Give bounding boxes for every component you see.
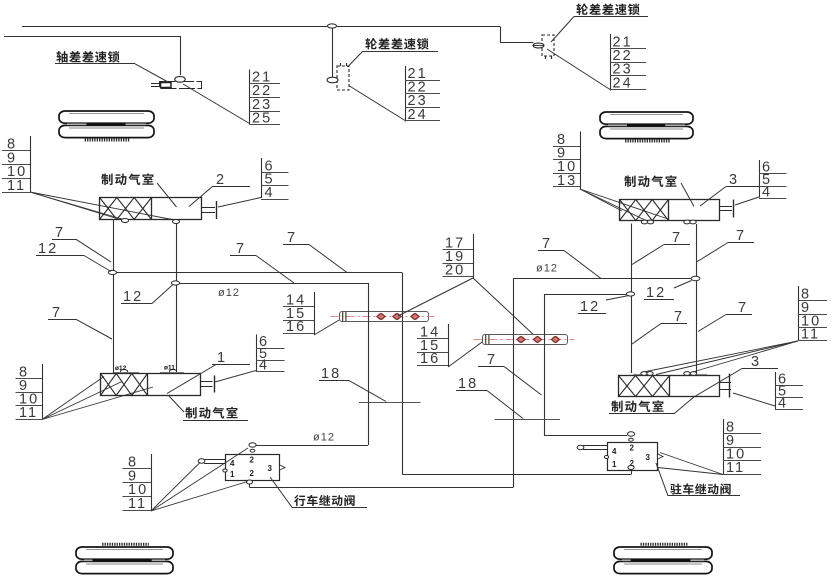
port flange stubs chamber 1: [114, 372, 139, 374]
svg-text:ø12: ø12: [536, 263, 558, 275]
tire bottom-right: [614, 544, 712, 573]
svg-text:2: 2: [250, 456, 255, 465]
callout stack 8/9/10/11 upper-left: [2, 136, 31, 194]
wire horizontal right to x513: [513, 278, 692, 280]
axle differential lock device: [151, 76, 202, 88]
callout stack 6/5/4 lower-right: [775, 372, 803, 412]
svg-text:ø11: ø11: [164, 365, 175, 372]
wire horizontal to center right: [113, 272, 402, 274]
callout stack 8/9/10/13 upper-right: [553, 132, 581, 190]
callout stack 21/22/23/24 mid: [405, 66, 440, 123]
svg-text:7: 7: [674, 309, 684, 325]
svg-text:ø12: ø12: [313, 432, 335, 444]
svg-text:16: 16: [286, 319, 306, 335]
callout stack 6/5/4 upper-left: [261, 158, 289, 201]
wire second line left: [4, 36, 180, 38]
brake chamber 3 upper: [620, 200, 720, 221]
label brake chamber text upper-right: [624, 175, 676, 187]
leader brake chamber label UR: [681, 183, 694, 207]
wire drop from node to wheel diff lock: [332, 28, 334, 78]
tire top-left: [59, 111, 154, 140]
parking valve breather: [577, 445, 609, 458]
svg-text:24: 24: [613, 75, 633, 91]
brake chamber 1: [101, 374, 201, 396]
fan leaders stack to chamber 1 spring: [42, 377, 104, 420]
leader wheel lock right to stack 21-24: [547, 49, 610, 90]
callout stack 8/9/10/11 lower-left: [16, 364, 43, 421]
wire valve top port line: [256, 445, 368, 447]
leader fitting to stack 6/5/4: [218, 198, 261, 208]
chamber 3 outlet fitting: [720, 200, 734, 218]
wire parking valve top line: [544, 435, 627, 437]
svg-text:12: 12: [38, 241, 58, 257]
node 12 right outer: [691, 276, 700, 280]
wheel differential lock device right: [533, 35, 554, 59]
svg-text:11: 11: [7, 178, 26, 194]
node junction on top line: [328, 24, 337, 28]
svg-text:18: 18: [321, 366, 341, 382]
svg-text:ø12: ø12: [218, 287, 240, 299]
valve bottom port: [246, 480, 252, 484]
fan leaders stack to chamber 2 spring: [30, 192, 115, 218]
label wheel diff lock right text: [576, 4, 639, 16]
tire top-right: [600, 112, 693, 141]
wire chamber3 right down: [696, 224, 698, 373]
fan leaders parking valve stack: [660, 453, 723, 475]
chamber 1 outlet fitting: [201, 376, 215, 393]
svg-text:7: 7: [738, 300, 748, 316]
label parking relay valve text: [670, 483, 730, 494]
leader axle lock to stack 21-25: [183, 84, 250, 124]
callout stack 8/9/10/11 right-edge: [798, 286, 827, 343]
svg-text:2: 2: [630, 444, 635, 453]
svg-text:11: 11: [726, 460, 745, 476]
underline and leader brake chamber LR: [609, 413, 674, 415]
node 12 right inner: [626, 292, 634, 296]
callout stack 6/5/4 upper-right: [759, 160, 787, 201]
wire service valve bottom to x513: [250, 487, 514, 489]
fan leaders right-edge stack to chamber 3L spring: [641, 341, 798, 373]
svg-text:ø12: ø12: [115, 365, 127, 372]
wire center vertical x368: [368, 283, 370, 445]
wire bottom long horizontal: [403, 474, 632, 476]
fan leaders stack to chamber 3 spring: [580, 189, 622, 211]
wire chamber3 left down: [631, 224, 633, 374]
callout stack 17/19/20: [443, 234, 474, 279]
svg-text:1: 1: [217, 350, 227, 366]
callout stack 8/9/10/11 valve-right: [723, 419, 761, 476]
brake chamber 2: [100, 198, 202, 220]
leader 14/15/16 right to pipe: [448, 341, 484, 367]
svg-text:7: 7: [287, 230, 297, 246]
pipe fitting 14-15-16 right: [474, 335, 575, 345]
mark hose 18 left tick: [359, 402, 421, 404]
svg-text:12: 12: [123, 289, 143, 305]
chamber 3L outlet fitting: [720, 374, 732, 398]
callout stack 21/22/23/24 right: [610, 34, 646, 91]
mark hose 18 right tick: [495, 419, 561, 421]
svg-text:7: 7: [52, 305, 62, 321]
chamber 1 top ports: [120, 370, 127, 374]
label axle diff lock text: [56, 51, 119, 63]
callout stack 6/5/4 lower-left: [256, 334, 285, 374]
leader wheel lock left to stack 21-24: [350, 86, 406, 121]
leader brake chamber label UL: [157, 183, 177, 207]
svg-text:4: 4: [265, 185, 275, 201]
wire vertical x513: [513, 279, 515, 488]
leader fitting1 to stack 6/5/4: [215, 371, 256, 383]
label service relay valve text: [294, 495, 354, 506]
wire parking valve bottom down: [631, 470, 633, 475]
svg-text:16: 16: [420, 351, 440, 367]
svg-text:7: 7: [542, 236, 552, 252]
label brake chamber text lower-right: [611, 400, 663, 412]
svg-text:2: 2: [250, 469, 255, 478]
valve breather left: [198, 459, 227, 472]
port stub lines: [633, 374, 641, 376]
chamber 3L top ports: [641, 372, 647, 376]
callout stack 14/15/16 left: [283, 292, 315, 335]
wheel differential lock device left: [327, 63, 349, 90]
label wheel diff lock right underline and leader: [574, 16, 648, 18]
svg-text:1: 1: [230, 470, 235, 479]
underline and leader parking relay valve: [668, 495, 740, 497]
leader fitting to stack 6/5/4 right: [735, 197, 759, 205]
svg-text:18: 18: [458, 376, 478, 392]
svg-text:4: 4: [230, 459, 235, 468]
valve top port ellipses: [249, 443, 256, 447]
svg-text:2: 2: [216, 172, 226, 188]
label wheel diff lock left text: [365, 38, 428, 50]
svg-text:3: 3: [751, 354, 761, 370]
svg-text:3: 3: [729, 172, 739, 188]
label wheel diff lock left underline and leader: [363, 51, 438, 53]
wire top main line: [22, 26, 500, 28]
fan leaders valve stack: [151, 463, 200, 512]
brake chamber 3 lower: [619, 376, 720, 397]
service relay valve: [226, 455, 286, 481]
label axle diff lock underline and leader: [55, 63, 135, 65]
svg-text:11: 11: [128, 496, 147, 512]
chamber 2 bottom ports: [121, 219, 128, 223]
parking valve top port ellipses: [627, 432, 634, 436]
wire vertical x544: [544, 294, 546, 435]
pipe fitting 14-15-16 left: [331, 312, 436, 322]
svg-text:3: 3: [646, 453, 651, 462]
leader 17/19/20 to left pipe: [398, 278, 473, 316]
chamber 2 outlet fitting: [202, 201, 217, 219]
wire segments crossing pipes: [368, 311, 370, 322]
parking valve bottom port: [628, 466, 634, 470]
svg-text:7: 7: [236, 241, 246, 257]
svg-text:7: 7: [487, 352, 497, 368]
leader 17/19/20 to right pipe: [473, 278, 536, 337]
callout stack 8/9/10/11 valve-left: [123, 454, 152, 512]
label brake chamber text upper-left: [101, 173, 153, 185]
underline and leader brake chamber LL: [183, 420, 248, 422]
wire drop to axle diff lock: [180, 36, 182, 75]
wire horizontal second: [176, 283, 368, 285]
tire bottom-left: [76, 544, 173, 573]
leader fitting3L to stack 6/5/4: [733, 393, 775, 406]
wire top right drop to wheel diff lock: [501, 27, 534, 43]
underline and leader service relay valve: [292, 507, 367, 509]
svg-text:12: 12: [646, 285, 666, 301]
svg-text:1: 1: [612, 460, 617, 469]
svg-text:12: 12: [580, 299, 600, 315]
parking relay valve: [608, 443, 664, 471]
wire horizontal right to x544: [544, 294, 627, 296]
svg-text:3: 3: [268, 464, 273, 473]
chamber 3 bottom ports: [641, 220, 647, 224]
svg-text:11: 11: [19, 405, 38, 421]
wire chamber2 right down: [176, 224, 178, 372]
wire chamber2 left down: [113, 219, 115, 373]
svg-text:7: 7: [736, 228, 746, 244]
wire center vertical x402: [402, 273, 404, 475]
label brake chamber text lower-left: [185, 407, 237, 419]
svg-text:4: 4: [612, 447, 617, 456]
callout stack 21/22/23/25: [250, 70, 281, 127]
leader 14/15/16 left to pipe: [314, 318, 343, 335]
svg-text:7: 7: [55, 225, 65, 241]
callout stack 14/15/16 right: [417, 324, 449, 367]
svg-text:7: 7: [672, 230, 682, 246]
